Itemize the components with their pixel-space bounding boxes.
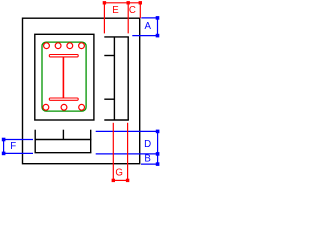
outer rectangle (foundation outline) bbox=[23, 18, 140, 164]
grip square A bottom bbox=[156, 34, 160, 38]
slab level tick lower bbox=[104, 98, 114, 100]
grip square A top bbox=[156, 16, 160, 20]
grip square C right bbox=[139, 1, 142, 4]
beam top horizontal bbox=[35, 139, 92, 141]
dimension A vertical bbox=[157, 18, 159, 36]
dimension G bottom line bbox=[113, 179, 127, 181]
dimension D/B middle line bbox=[96, 153, 158, 155]
grip square E/C middle bbox=[127, 1, 130, 4]
dimension G right extension bbox=[127, 123, 129, 181]
rebar bottom row circle 1 bbox=[43, 104, 49, 110]
dimension A top extension bbox=[141, 17, 157, 19]
beam middle stub vertical bbox=[62, 130, 64, 140]
rebar bottom row circle 3 bbox=[79, 104, 85, 110]
svg-text:G: G bbox=[115, 167, 123, 178]
svg-text:F: F bbox=[10, 141, 16, 152]
beam bottom horizontal bbox=[35, 152, 92, 154]
svg-text:B: B bbox=[144, 154, 150, 165]
grip square D/B middle bbox=[156, 152, 160, 156]
dimension B bottom line bbox=[141, 163, 158, 165]
rebar top row circle 1 bbox=[44, 43, 50, 49]
grip square E left bbox=[103, 1, 106, 4]
dimension A bottom extension bbox=[132, 35, 157, 37]
dimension D/B vertical bbox=[157, 131, 159, 164]
stirrup (green rounded rectangle) bbox=[42, 42, 86, 111]
dimension E left extension bbox=[103, 3, 105, 34]
dimension F vertical bbox=[3, 140, 5, 154]
grip square G left bbox=[112, 179, 115, 182]
grip square D top bbox=[156, 130, 160, 134]
svg-text:A: A bbox=[144, 21, 151, 32]
steel I-beam bottom flange bbox=[49, 98, 78, 100]
grip square F bottom bbox=[2, 152, 6, 156]
grip square G right bbox=[126, 179, 129, 182]
dimension G left extension bbox=[112, 123, 114, 181]
corbel ledge horizontal bbox=[104, 36, 129, 38]
corbel left vertical bbox=[113, 37, 115, 120]
dimension F top extension bbox=[4, 139, 33, 141]
svg-text:E: E bbox=[112, 5, 119, 16]
rebar top row circle 4 bbox=[79, 43, 85, 49]
grip square F top bbox=[2, 138, 6, 142]
svg-text:D: D bbox=[144, 139, 151, 150]
rebar bottom row circle 2 bbox=[61, 104, 67, 110]
corbel right vertical bbox=[127, 37, 129, 120]
svg-text:C: C bbox=[129, 5, 136, 16]
dimension E/C red line top bbox=[104, 2, 140, 4]
dimension E/C middle extension bbox=[127, 3, 129, 34]
rebar top row circle 3 bbox=[67, 43, 73, 49]
slab level tick upper bbox=[104, 55, 114, 57]
beam right vertical bbox=[90, 130, 92, 153]
inner rectangle (column concrete section) bbox=[35, 34, 94, 120]
steel I-beam web bbox=[62, 57, 64, 98]
beam left vertical bbox=[34, 130, 36, 153]
corbel bottom horizontal bbox=[104, 119, 129, 121]
steel I-beam top flange bbox=[49, 55, 78, 57]
dimension C right extension bbox=[139, 3, 141, 18]
dimension D top line bbox=[96, 130, 158, 132]
dimension F bottom extension bbox=[4, 152, 33, 154]
grip square B bottom bbox=[156, 162, 160, 166]
rebar top row circle 2 bbox=[55, 43, 61, 49]
